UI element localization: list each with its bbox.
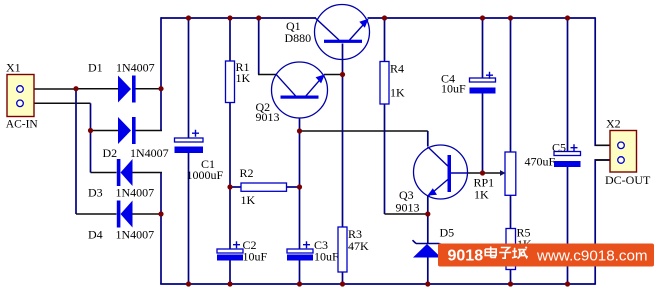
svg-text:D4: D4 [88, 228, 103, 242]
svg-text:9018: 9018 [448, 248, 484, 265]
diode D4 [117, 201, 133, 228]
wire D1 cathode to vertical [136, 88, 162, 90]
wire R2 right lead [287, 186, 300, 188]
transistor Q3 [414, 145, 468, 199]
transistor Q2 [272, 62, 328, 118]
wire Q3 collector lead [427, 131, 429, 146]
resistor R2 [241, 183, 287, 191]
wire R5 bottom lead [510, 270, 512, 285]
junction D4 anode / minus rail [158, 211, 163, 216]
wire D4 anode horizontal [133, 213, 163, 215]
wire Q2 base to Q3 collector horizontal [300, 130, 428, 132]
svg-text:10uF: 10uF [441, 82, 466, 96]
wire X2 pin2 to bottom rail [595, 160, 618, 285]
svg-text:D3: D3 [88, 186, 103, 200]
svg-text:D2: D2 [103, 146, 118, 160]
wire C5 bottom lead [567, 167, 569, 284]
svg-text:X1: X1 [6, 61, 21, 75]
svg-text:470uF: 470uF [525, 155, 556, 169]
wire Q3 emitter lead [427, 196, 429, 214]
svg-text:R4: R4 [390, 62, 404, 76]
diode D3 [117, 159, 133, 186]
wire bottom rail [160, 283, 595, 285]
wire X1 pin2 stub [23, 102, 91, 104]
junction R3 bottom [340, 281, 345, 286]
wire Q2 base lead down [299, 118, 301, 131]
junction Q2 collector top [256, 15, 261, 20]
junction Q1 base node [340, 72, 345, 77]
diode D2 [118, 117, 136, 144]
capacitor C5 [554, 144, 581, 167]
svg-text:1N4007: 1N4007 [116, 61, 155, 75]
resistor R1 [226, 61, 235, 103]
junction D1 cathode / +raw rail [158, 86, 163, 91]
capacitor C3 [287, 241, 313, 260]
wire C3 bottom lead [299, 261, 301, 285]
watermark banner 9018 [438, 244, 654, 267]
wire C1 top lead [188, 18, 190, 138]
svg-text:1N4007: 1N4007 [116, 228, 155, 242]
wire D2 cathode horizontal [136, 130, 163, 132]
resistor R3 [338, 227, 347, 272]
wire AC node A vertical to D4 row [75, 88, 77, 214]
wire Q2 collector horizontal [258, 74, 277, 76]
wire R3 top lead from Q1 base node [342, 75, 344, 228]
wire X1 pin1 stub [23, 88, 76, 90]
resistor R4 [380, 62, 389, 105]
junction C5 top [565, 15, 570, 20]
wire Q3 base to RP1 wiper [468, 172, 502, 174]
svg-text:1N4007: 1N4007 [130, 146, 169, 160]
connector X2 [610, 131, 637, 173]
wire D5 top lead [427, 214, 429, 244]
wire Q2 collector vertical to top rail [258, 17, 260, 74]
connector X1 [7, 75, 34, 117]
svg-text:1K: 1K [390, 86, 405, 100]
wire X2 pin2 stub [595, 159, 618, 161]
capacitor C4 [470, 72, 496, 94]
junction R5 bottom [508, 281, 513, 286]
wire left vertical from D3 row to bottom rail [160, 173, 162, 285]
wire C2 top lead [229, 187, 231, 249]
svg-text:1K: 1K [474, 188, 489, 202]
junction R1 R2 C2 node [227, 184, 232, 189]
wire D3 anode horizontal [133, 172, 163, 174]
svg-text:DC-OUT: DC-OUT [605, 173, 651, 187]
svg-text:47K: 47K [348, 239, 369, 253]
wire C5 top lead [567, 18, 569, 152]
junction D5 bottom [425, 281, 430, 286]
junction C1 bottom [186, 281, 191, 286]
svg-text:www.c9018.com: www.c9018.com [536, 248, 648, 265]
svg-text:1000uF: 1000uF [187, 168, 224, 182]
zener diode D5 [413, 240, 444, 257]
wire R1 bottom lead to node R1R2 [229, 103, 231, 188]
wire D3 row stub [91, 172, 117, 174]
capacitor C2 [217, 241, 243, 260]
junction node AC-B [88, 128, 93, 133]
wire R4 top lead [384, 18, 386, 62]
wire AC node B vertical to D2 and D3 rows [90, 103, 92, 172]
wire C4 top lead [482, 18, 484, 78]
junction RP1 wiper node [480, 170, 485, 175]
junction C2 bottom [227, 281, 232, 286]
svg-text:10uF: 10uF [243, 250, 268, 264]
wire R2 left lead [230, 186, 241, 188]
junction Q2 base node [297, 128, 302, 133]
svg-text:10uF: 10uF [314, 250, 339, 264]
svg-text:R2: R2 [240, 166, 254, 180]
wire C1 bottom lead [188, 153, 190, 284]
svg-text:D5: D5 [440, 226, 455, 240]
junction node AC-A [73, 86, 78, 91]
svg-text:9013: 9013 [396, 201, 420, 215]
capacitor C1 [175, 130, 204, 153]
wire R4 to Q3 emitter node horizontal [385, 213, 428, 215]
svg-text:1K: 1K [236, 71, 251, 85]
transistor Q1 [315, 5, 370, 60]
junction R4 top [382, 15, 387, 20]
wire R4 bottom lead [384, 104, 386, 214]
potentiometer RP1 [500, 152, 516, 195]
wire output to X2 pin1 [595, 17, 618, 145]
svg-text:D880: D880 [285, 31, 312, 45]
junction R1 top [227, 15, 232, 20]
svg-text:1N4007: 1N4007 [116, 186, 155, 200]
junction C1 top [186, 15, 191, 20]
svg-text:9013: 9013 [256, 110, 280, 124]
svg-text:X2: X2 [606, 117, 621, 131]
junction C3 bottom [297, 281, 302, 286]
wire D1 anode [76, 88, 118, 90]
wire R3 bottom lead [342, 272, 344, 284]
svg-text:D1: D1 [88, 61, 103, 75]
wire Q2 emitter stub to Q1 base node [324, 74, 343, 76]
wire X2 pin1 stub [595, 144, 618, 146]
wire Q1 base lead [342, 44, 344, 75]
svg-text:1K: 1K [241, 193, 256, 207]
svg-text:C5: C5 [552, 141, 566, 155]
junction R2 C3 node [297, 184, 302, 189]
wire D4 row stub [76, 213, 117, 215]
svg-text:AC-IN: AC-IN [6, 119, 39, 131]
wire RP1 bottom lead to R5 [510, 195, 512, 228]
junction Q3 emitter D5 node [425, 211, 430, 216]
wire D5 bottom lead [427, 258, 429, 285]
junction C5 bottom [565, 281, 570, 286]
wire C2 bottom lead [229, 261, 231, 285]
wire D2 row stub from node B [91, 130, 119, 132]
diode D1 [118, 76, 136, 103]
wire top rail left segment [161, 17, 316, 19]
junction C4 top [480, 15, 485, 20]
wire top rail right segment [368, 17, 596, 19]
junction RP1 top [508, 15, 513, 20]
wire left vertical from top rail to D2 row [160, 17, 162, 130]
wire RP1 top lead [510, 18, 512, 152]
wire C4 bottom lead to wiper node [482, 94, 484, 174]
resistor R5 [506, 229, 516, 270]
wire R1 top lead [229, 18, 231, 61]
wire Q2 base node vertical to R2 and C3 [299, 131, 301, 249]
